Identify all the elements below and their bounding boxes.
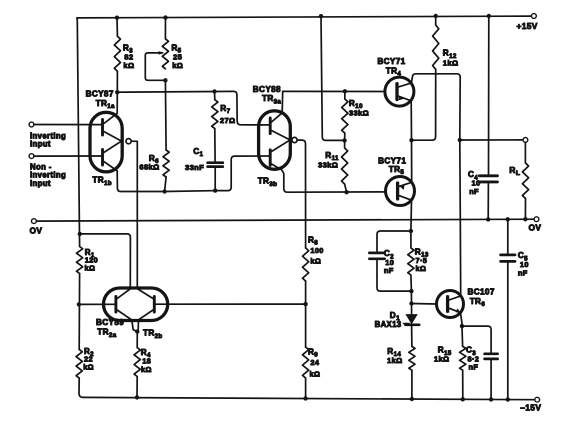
wire: C2 branch strap [377,231,411,251]
svg-text:BCY87: BCY87 [86,90,114,99]
wire: TR2a base wire [79,303,115,305]
wire: TR1b collector bus to TR3b base [165,156,271,192]
resistor R9 [303,347,321,378]
wire: R12 bottom down to TR4/TR5 node [412,69,436,140]
capacitor C3 [466,346,498,372]
node: C5 on -15V rail [506,397,510,401]
node: C5 top on 0V rail [506,217,510,221]
node: C4 bottom on 0V rail [486,217,490,221]
wire: C4 top lead from +15V rail [488,16,490,174]
wire: D1 cathode to R14 [411,326,413,346]
svg-text:nF: nF [518,269,528,278]
resistor R15 [434,326,466,399]
wire: R7 to C1 [214,129,216,161]
node: C3 on -15V rail [489,397,493,401]
svg-text:kΩ: kΩ [416,264,427,273]
svg-text:R7: R7 [220,104,230,115]
svg-text:kΩ: kΩ [85,263,96,272]
wire: TR3 emitters down to R8 [298,140,306,248]
transistor TR2b elements [137,289,154,332]
wire: 0V mid rail [34,219,537,221]
resistor R10 [342,91,369,140]
node: R10/R11 junction [342,138,346,142]
wire: C5 bottom lead to -15V rail [507,263,509,400]
wire: TR4 collector loop to output node [411,74,460,140]
wire: R3 to TR1a collector node [116,71,118,92]
svg-text:C1: C1 [193,147,203,158]
resistor R7 [212,92,236,129]
svg-text:68kΩ: 68kΩ [139,163,159,172]
capacitor C2 [369,249,394,275]
node: +15V feed dot on top rail [319,14,323,18]
svg-text:RL: RL [509,165,520,177]
transistor TR1a elements [103,92,122,141]
svg-text:input: input [30,140,51,149]
resistor R3 [114,36,134,71]
capacitor C1 [185,147,223,172]
node: R1/R2/TR2a-base junction [77,302,81,306]
terminal 0V right [529,217,542,233]
diode D1 (BAX13) [375,304,420,330]
wire: TR6 emitter to R15/C3 node [461,313,463,326]
resistor R11 [318,140,348,192]
resistor R14 [387,346,415,370]
TR3 common emitter bubble [292,137,297,142]
resistor R8 [303,235,324,281]
node: TR2a collector branch on bias column [78,232,82,236]
terminal inverting input [29,122,66,149]
wire: TR5 collector to node [411,140,413,182]
node: R10 top junction [343,89,347,93]
node: R6 bottom / TR1b collector junction [162,189,166,193]
TR1 common emitter bubble [126,139,131,144]
svg-text:kΩ: kΩ [310,369,321,378]
transistor TR1b elements [103,141,165,191]
wire: R9 to -15V rail [305,378,307,398]
wire: inverting input to TR1a base [34,124,103,126]
svg-text:25: 25 [173,52,183,61]
node: TR4-emitter/TR5-collector/R12 junction [409,138,413,142]
node: R9 on -15V rail [303,396,307,400]
svg-text:33kΩ: 33kΩ [318,161,338,170]
svg-text:TR3b: TR3b [258,177,278,188]
wire: R5 bottom to R6 top [164,80,167,150]
wire: C1 bottom lead [214,168,216,191]
node: R5 top on +15V rail [163,15,167,19]
dual transistor TR2 package (BCY89) outline [96,288,168,340]
node: TR2 common emitter junction [135,329,139,333]
svg-text:kΩ: kΩ [123,61,134,70]
node: R7 top junction [212,89,216,93]
wire: R14 to -15V rail [411,370,413,399]
svg-text:33nF: 33nF [185,163,204,172]
terminal output (RL top) [523,138,528,143]
wire: TR4 emitter to R12 node [410,101,412,140]
capacitor C5 [501,251,529,277]
svg-text:kΩ: kΩ [172,61,183,70]
terminal non-inverting input [29,154,66,188]
svg-text:kΩ: kΩ [141,365,152,374]
svg-text:1kΩ: 1kΩ [387,356,403,365]
wire: non-inverting input to TR1b base [34,155,103,157]
node: R12 top on +15V rail [434,14,438,18]
wire: TR5 emitter down to R13/C2 network [410,200,413,231]
transistor TR2a elements [116,289,137,332]
node: C4 top on +15V rail [487,14,491,18]
svg-text:nF: nF [469,187,479,196]
wire: TR2a collector branch (bias column to TR2a) [80,234,131,289]
node: R5 bottom / R6 top junction [163,78,167,82]
node: TR5 emitter / R13 / C2 junction [409,229,413,233]
svg-text:82: 82 [124,52,133,61]
wire: R6 bottom lead [165,177,167,192]
svg-text:TR5: TR5 [389,165,405,176]
svg-text:input: input [30,179,51,188]
wire: TR6 base wire [412,303,437,306]
wire: +15V rail down to R10/R11 junction [321,16,345,140]
wire: R13 node to D1/TR6 node [410,291,412,303]
svg-text:nF: nF [469,363,479,372]
wire: +15V rail to R3 [116,18,118,37]
wire: C3 bottom to -15V rail [490,360,492,399]
resistor R13 [408,231,429,291]
node: R8/R9/TR2b-base junction [303,302,307,306]
wire: C5 top lead [507,219,509,253]
svg-text:1kΩ: 1kΩ [443,59,459,68]
wire: first-stage output bus (R3 node to TR3a base) [117,91,270,125]
wire: TR3a collector bus to TR4 base [283,90,385,92]
svg-text:TR2b: TR2b [143,329,163,340]
wire: -15V bottom supply rail [83,397,537,399]
dual transistor TR1 package (BCY87) outline [86,90,123,187]
wire: R1 to R2 segment [78,274,80,350]
transistor TR6 (BC107) [437,288,495,318]
capacitor C4 [468,170,497,196]
wire: C4 bottom lead to 0V rail [487,184,489,220]
svg-text:OV: OV [529,223,542,233]
terminal -15V [520,397,541,412]
svg-text:OV: OV [30,226,43,236]
svg-text:BC107: BC107 [468,288,495,297]
resistor R1 [77,247,99,274]
svg-text:kΩ: kΩ [310,256,321,265]
node: R15 on -15V rail [461,397,465,401]
dual transistor TR3 package (BCY88) outline [253,85,291,188]
wire: TR1 emitters to TR2b collector [132,141,137,288]
svg-text:nF: nF [384,266,394,275]
resistor R5 (trimmer) [162,39,183,70]
svg-text:BAX13: BAX13 [375,320,402,329]
resistor R6 [139,150,169,177]
svg-text:+15V: +15V [517,21,538,31]
svg-text:100: 100 [310,246,323,255]
resistor R2 [76,347,94,378]
resistor R4 [134,332,152,398]
terminal +15V [517,14,538,31]
resistor R12 [433,16,459,69]
wire: output to load terminal [460,139,523,141]
wire: left bias column (+15V rail down to R1) [77,18,80,247]
wire: C3 branch strap [462,326,491,352]
node: TR6 emitter junction [460,324,464,328]
node: R4 on -15V rail [135,395,139,399]
svg-text:TR1b: TR1b [92,176,112,187]
wire: R2 to -15V rail corner [79,378,83,397]
wire: TR6 collector up to output node [459,140,462,296]
node: R13/C2 bottom junction [409,289,413,293]
resistor RL (load) [509,142,528,219]
wire: R5 wiper strap [145,51,165,80]
node: R3 top on +15V rail [115,16,119,20]
node: C1 bottom junction [213,188,217,192]
wire: R8 to R9 segment [305,281,307,347]
wire: +15V top supply rail [77,16,534,18]
svg-text:BCY88: BCY88 [253,85,281,94]
svg-text:24: 24 [310,358,319,367]
svg-text:TR3a: TR3a [262,94,281,105]
svg-text:1kΩ: 1kΩ [434,354,450,363]
svg-text:TR1a: TR1a [96,99,115,110]
wire: TR2b base wire to R8/R9 junction [156,303,306,305]
terminal 0V left [30,219,43,236]
transistor TR5 (BCY71) [378,156,414,205]
svg-text:TR6: TR6 [470,297,486,308]
node: RL bottom on 0V rail [523,217,527,221]
svg-text:TR2a: TR2a [97,328,116,339]
svg-text:R8: R8 [308,235,318,246]
node: D1 anode / TR6 base junction [409,301,413,305]
svg-text:R9: R9 [308,347,318,358]
svg-text:27Ω: 27Ω [220,116,236,125]
svg-text:BCY89: BCY89 [96,318,124,327]
wire: C2 bottom strap [377,260,411,291]
svg-text:BCY71: BCY71 [377,57,405,66]
wire: +15V rail to R5 [164,18,166,39]
transistor TR3b elements [270,140,385,192]
node: output junction [458,138,462,142]
node: R14 on -15V rail [410,397,414,401]
svg-text:–15V: –15V [520,403,541,413]
svg-text:TR4: TR4 [386,66,402,77]
node: R3/TR1a-collector junction [115,90,119,94]
transistor TR4 (BCY71) [377,57,414,106]
node: R11 bottom junction on TR5 base wire [344,190,348,194]
svg-text:33kΩ: 33kΩ [349,109,369,118]
transistor TR3a elements [270,91,290,139]
svg-text:kΩ: kΩ [83,363,94,372]
